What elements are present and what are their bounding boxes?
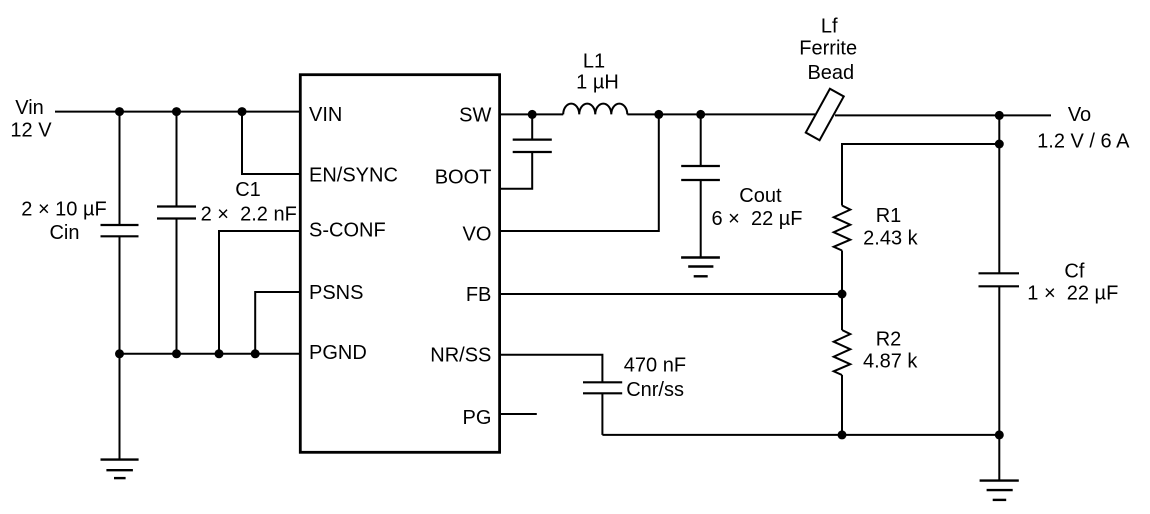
label L1 [576,51,619,94]
svg-text:2 × 2.2 nF: 2 × 2.2 nF [201,204,297,226]
node Vin label [10,97,52,142]
resistor R1 [834,206,851,251]
svg-text:PSNS: PSNS [309,282,363,304]
wire L1 to ferrite bead [627,113,815,115]
capacitor Cout [681,114,720,257]
junction dot SW/BOOT [528,110,537,119]
ground output [980,481,1019,500]
svg-text:SW: SW [459,105,491,127]
svg-text:470 nF: 470 nF [624,354,686,376]
wire bottom rail [602,434,999,436]
svg-text:2.43 k: 2.43 k [863,228,918,250]
wire SW lead [500,113,564,115]
label C1 value [201,179,297,226]
junction dot PGND/Cin [115,349,124,358]
junction dot Vin/C1 [172,107,181,116]
label Cf value [1027,260,1118,304]
svg-text:6 × 22 µF: 6 × 22 µF [711,208,802,230]
svg-text:VIN: VIN [309,104,342,126]
svg-text:BOOT: BOOT [435,167,492,189]
svg-text:R2: R2 [876,329,902,351]
wire EN/SYNC stub [242,112,300,174]
inductor L1 [563,104,627,115]
svg-text:R1: R1 [876,205,902,227]
wire PGND rail [120,353,301,355]
wire FB node to R2 [841,294,843,330]
svg-text:2 × 10 µF: 2 × 10 µF [21,199,106,221]
svg-text:Cnr/ss: Cnr/ss [626,379,684,401]
label R2 value [863,329,918,373]
svg-text:1 × 22 µF: 1 × 22 µF [1027,283,1118,305]
junction dot Cf top branch [995,140,1004,149]
junction dot Cout [696,110,705,119]
svg-text:PGND: PGND [309,342,367,364]
wire input ground drop [119,354,121,460]
node Vo label [1037,104,1130,152]
svg-text:S-CONF: S-CONF [309,219,386,241]
junction dot PGND/PSNS [251,349,260,358]
wire NR/SS [500,355,603,382]
svg-text:NR/SS: NR/SS [430,345,491,367]
wire bead to Vo [835,114,1051,116]
svg-text:Vo: Vo [1068,104,1091,126]
label R1 value [863,205,918,250]
svg-text:4.87 k: 4.87 k [863,350,918,372]
capacitor Cin [101,112,139,354]
ferrite bead Lf [806,89,844,140]
wire R1 to FB node [841,251,843,295]
wire PSNS [255,292,300,354]
wire Vo node to Cf [998,115,1000,273]
junction dot Vin/Cin [115,107,124,116]
capacitor C1 [157,112,196,354]
capacitor Cboot [500,114,552,188]
junction dot Vin/EN [238,107,247,116]
svg-text:Bead: Bead [807,62,854,84]
label Cout value [711,185,802,230]
wire S-CONF [219,231,300,354]
svg-text:C1: C1 [235,179,261,201]
wire FB [500,293,843,295]
junction dot bottom R2 [838,430,847,439]
svg-text:EN/SYNC: EN/SYNC [309,164,398,186]
capacitor Cf [979,273,1020,435]
ground input [101,460,139,479]
junction dot bottom Cf [995,430,1004,439]
junction dot FB [838,290,847,299]
junction dot VO branch [654,110,663,119]
wire R1 top branch [842,144,999,206]
svg-text:Ferrite: Ferrite [799,37,857,59]
wire output ground drop [998,435,1000,481]
svg-text:Cin: Cin [49,222,79,244]
svg-text:Vin: Vin [15,97,44,119]
svg-text:12 V: 12 V [10,120,52,142]
label Cnr/ss value [624,354,686,401]
wire VO [500,114,659,231]
svg-text:FB: FB [466,284,492,306]
capacitor Cnr/ss [583,382,622,435]
resistor R2 [834,330,851,375]
ground Cout [681,258,720,277]
junction dot PGND/S-CONF [215,349,224,358]
label Lf ferrite bead [799,15,857,83]
svg-text:Cout: Cout [739,185,782,207]
wire R2 to bottom rail [841,375,843,435]
junction dot PGND/C1 [172,349,181,358]
IC U1 body [300,75,499,453]
svg-text:L1: L1 [583,51,605,73]
svg-text:1.2 V / 6 A: 1.2 V / 6 A [1037,130,1130,152]
wire PG stub [500,413,537,415]
svg-text:1 µH: 1 µH [576,72,619,94]
svg-text:Cf: Cf [1064,260,1084,282]
junction dot Vo node [995,111,1004,120]
svg-text:Lf: Lf [821,15,838,37]
svg-text:VO: VO [462,223,491,245]
wire Vin rail [55,111,300,113]
svg-text:PG: PG [462,407,491,429]
label Cin value [21,199,106,245]
